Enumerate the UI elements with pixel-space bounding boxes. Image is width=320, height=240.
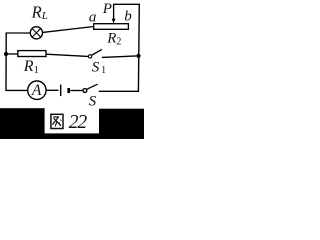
- wire ammeter to battery: [46, 89, 58, 91]
- switch S pivot: [83, 89, 87, 93]
- battery short plate: [67, 88, 70, 93]
- wire battery to switch S: [70, 90, 83, 92]
- caption glyph 图 outer box: [51, 114, 63, 128]
- rheostat R2 box: [94, 24, 129, 30]
- wire R1 to switch S1: [46, 54, 88, 56]
- wire left vertical: [5, 33, 7, 91]
- svg-text:22: 22: [69, 112, 88, 133]
- wire bottom row left: [5, 89, 27, 91]
- battery long plate: [60, 85, 62, 97]
- switch S blade: [87, 84, 98, 89]
- svg-text:P: P: [102, 1, 112, 17]
- caption black bar left: [0, 108, 45, 139]
- node junction right: [136, 54, 140, 58]
- ammeter A: [28, 81, 46, 99]
- wire right vertical: [137, 4, 140, 92]
- slider P arrow: [113, 4, 115, 19]
- lamp RL: [30, 27, 42, 39]
- wire lamp to rheostat a-terminal: [43, 27, 94, 33]
- svg-text:S: S: [89, 93, 97, 109]
- caption black bar bottom: [44, 133, 100, 139]
- caption glyph 图 inner strokes: [53, 116, 59, 118]
- resistor R1 box: [18, 51, 46, 57]
- wire S1 to right junction: [102, 56, 137, 58]
- wire middle stub to R1: [6, 53, 19, 55]
- wire lamp row left stub: [6, 32, 31, 34]
- svg-text:A: A: [31, 82, 42, 99]
- svg-text:b: b: [124, 9, 132, 25]
- switch S1 blade: [92, 50, 102, 56]
- switch S1 pivot: [88, 55, 91, 58]
- caption black bar right: [99, 109, 144, 139]
- wire top (slider to right edge): [113, 3, 140, 5]
- wire S to right corner: [99, 90, 139, 92]
- node junction left: [4, 52, 8, 56]
